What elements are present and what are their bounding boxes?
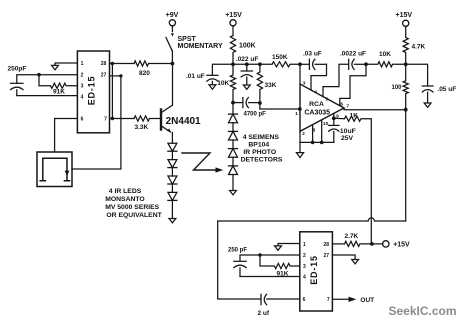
svg-text:1: 1 bbox=[303, 242, 306, 248]
resistor R12 91K bbox=[260, 255, 300, 269]
svg-text:BP104: BP104 bbox=[248, 141, 269, 148]
wire LED chain to terminal bbox=[171, 200, 173, 218]
photodiode PD4 bbox=[229, 166, 238, 175]
wire rail right bbox=[233, 63, 272, 65]
wire node to op-amp pin3 bbox=[299, 64, 301, 84]
wire bbox=[232, 157, 234, 166]
photodiode PD2 bbox=[229, 131, 238, 140]
ground terminal pin27 U3 bbox=[352, 260, 359, 264]
wire U1 pin1 to ground bbox=[55, 63, 77, 65]
svg-text:ED-15: ED-15 bbox=[87, 76, 97, 106]
svg-text:.01 uF: .01 uF bbox=[186, 73, 205, 80]
node .0022uF/10K/pin6 bbox=[364, 62, 368, 66]
resistor R8 10K bbox=[366, 62, 406, 67]
wire U1 pin27 bbox=[110, 75, 121, 77]
node 150K/.03uF/pin3 bbox=[298, 62, 302, 66]
svg-text:MOMENTARY: MOMENTARY bbox=[178, 43, 223, 50]
wire bbox=[171, 184, 173, 192]
wire U3 pin27 to ground bbox=[332, 255, 355, 259]
svg-text:150K: 150K bbox=[272, 54, 288, 61]
svg-text:27: 27 bbox=[324, 253, 330, 259]
svg-text:3.3K: 3.3K bbox=[135, 124, 149, 131]
svg-text:2: 2 bbox=[81, 73, 84, 79]
capacitor C10 250pF bbox=[234, 261, 246, 276]
photodiode PD3 bbox=[229, 149, 238, 158]
transistor Q1 2N4401 bbox=[161, 64, 173, 144]
capacitor C1 250pF bbox=[11, 83, 23, 95]
svg-text:2N4401: 2N4401 bbox=[166, 116, 201, 127]
op-amp U3 ED-15 body bbox=[300, 232, 333, 311]
wire bbox=[171, 151, 173, 159]
svg-text:33K: 33K bbox=[265, 82, 277, 89]
wire cap bottom to U3 pin4 bbox=[240, 276, 300, 278]
U2 pin10 drop bbox=[321, 120, 323, 142]
svg-text:OUT: OUT bbox=[360, 297, 374, 304]
node pin8 rail bbox=[311, 141, 315, 145]
svg-text:.022 uF: .022 uF bbox=[236, 56, 258, 63]
capacitor C4 4700pF bbox=[233, 98, 260, 108]
node .022uF tap bbox=[245, 62, 249, 66]
svg-text:ED-15: ED-15 bbox=[309, 255, 319, 285]
ground terminal .05uF bbox=[424, 103, 431, 107]
svg-text:MONSANTO: MONSANTO bbox=[105, 196, 145, 203]
resistor R4 100K bbox=[230, 36, 235, 65]
svg-text:10: 10 bbox=[323, 121, 329, 127]
svg-text:4: 4 bbox=[314, 90, 317, 96]
switch S1 SPST momentary bbox=[166, 26, 174, 64]
U2 pin2 drop bbox=[299, 131, 301, 142]
feedback wire down-left bbox=[218, 221, 261, 299]
wire node to .05uF bbox=[406, 64, 428, 86]
wire U1 pin7 bbox=[110, 118, 135, 120]
resistor R10 100 bbox=[403, 64, 408, 109]
feedback wire output down bbox=[405, 110, 407, 221]
U2 pin8 drop bbox=[312, 125, 314, 143]
wire U1 pin6 to sensor box bbox=[55, 119, 78, 153]
ground terminal LED chain bbox=[169, 219, 176, 223]
svg-text:1: 1 bbox=[81, 61, 84, 67]
node 33K tap bbox=[258, 62, 262, 66]
svg-text:.0022 uF: .0022 uF bbox=[340, 50, 366, 57]
LED D4 bbox=[168, 192, 177, 200]
U2 pin9 stub bbox=[333, 113, 335, 118]
node op-amp pin1 bbox=[298, 107, 302, 111]
svg-text:+15V: +15V bbox=[393, 242, 410, 249]
svg-text:100K: 100K bbox=[239, 43, 256, 50]
svg-text:2: 2 bbox=[302, 131, 305, 137]
capacitor C5 .03uF bbox=[300, 59, 327, 69]
svg-text:IR PHOTO: IR PHOTO bbox=[243, 149, 276, 156]
node vertical bottom on pin7 wire bbox=[111, 117, 114, 120]
svg-text:.03 uF: .03 uF bbox=[303, 50, 322, 57]
wire photodiode chain top bbox=[232, 103, 234, 115]
wire bbox=[232, 140, 234, 149]
svg-text:28: 28 bbox=[324, 242, 330, 248]
capacitor C3 .022uF bbox=[241, 64, 252, 85]
capacitor C9 2uF bbox=[261, 294, 300, 304]
resistor R6 33K bbox=[257, 64, 262, 103]
light emission arrow bbox=[182, 153, 223, 173]
node output/100 bbox=[404, 108, 408, 112]
svg-text:5: 5 bbox=[325, 96, 328, 102]
wire bbox=[171, 168, 173, 176]
svg-text:4 IR LEDS: 4 IR LEDS bbox=[109, 188, 142, 195]
ground terminal pin1 U3 bbox=[275, 246, 282, 250]
node 10K/4.7K/100 bbox=[404, 62, 408, 66]
feedback wire horizontal with hop bbox=[218, 218, 406, 221]
svg-text:SeekIC.com: SeekIC.com bbox=[389, 304, 457, 318]
svg-text:MV 5000 SERIES: MV 5000 SERIES bbox=[105, 204, 159, 211]
node 4700pF/33K bbox=[258, 101, 262, 105]
capacitor C7 .05uF bbox=[422, 86, 433, 103]
svg-text:2 uf: 2 uf bbox=[258, 310, 270, 317]
node 100K/10K/rail bbox=[231, 62, 235, 66]
svg-text:+15V: +15V bbox=[396, 12, 413, 19]
+15V terminal bottom bbox=[383, 241, 410, 249]
svg-text:CA3035: CA3035 bbox=[304, 109, 330, 116]
resistor R2 820 bbox=[134, 61, 172, 66]
node pin2/91K junction bbox=[37, 73, 41, 77]
resistor R5 10K (photodiode load) bbox=[230, 64, 235, 102]
svg-text:250pF: 250pF bbox=[8, 66, 27, 73]
svg-text:7: 7 bbox=[346, 104, 349, 110]
op-amp U2 RCA CA3035 bbox=[300, 84, 344, 131]
svg-text:1K: 1K bbox=[350, 112, 359, 119]
node 820/vertical top bbox=[111, 62, 114, 65]
svg-text:10uF: 10uF bbox=[340, 128, 356, 135]
wire rail to .01uF branch bbox=[212, 64, 233, 75]
svg-text:2: 2 bbox=[303, 253, 306, 259]
node 2.7K/1K/+15V bbox=[370, 242, 374, 246]
svg-text:SPST: SPST bbox=[178, 36, 197, 43]
svg-text:100: 100 bbox=[392, 85, 403, 91]
svg-text:3: 3 bbox=[81, 84, 84, 90]
svg-text:2.7K: 2.7K bbox=[345, 233, 359, 240]
wire U1 pin28 bbox=[110, 63, 135, 65]
U2 ground rail bbox=[300, 141, 334, 143]
svg-text:28: 28 bbox=[101, 61, 107, 67]
resistor R7 150K bbox=[272, 62, 300, 67]
svg-text:4700 pF: 4700 pF bbox=[244, 112, 267, 118]
+9V terminal bbox=[166, 12, 179, 26]
wire bbox=[232, 123, 234, 132]
wire node to op-amp pin6 bbox=[340, 64, 366, 105]
resistor R3 3.3K bbox=[134, 116, 161, 121]
wire U3 pin2 left bbox=[240, 255, 300, 261]
resistor R11 1K bbox=[334, 116, 372, 244]
svg-text:4: 4 bbox=[303, 275, 306, 281]
op-amp output wire pin7 bbox=[344, 108, 406, 110]
ground terminal .01uF bbox=[209, 85, 216, 89]
+15V terminal right bbox=[396, 12, 413, 27]
OUT arrowhead bbox=[349, 297, 357, 302]
svg-text:250 pF: 250 pF bbox=[228, 248, 247, 254]
svg-text:OR EQUIVALENT: OR EQUIVALENT bbox=[106, 212, 162, 219]
svg-text:820: 820 bbox=[139, 70, 150, 77]
wire .03uF to op-amp pin4 bbox=[311, 64, 327, 90]
resistor R1 91K bbox=[39, 75, 77, 89]
capacitor C2 .01uF bbox=[207, 75, 218, 84]
LED D1 bbox=[168, 143, 177, 151]
svg-text:6: 6 bbox=[81, 117, 84, 123]
svg-text:4.7K: 4.7K bbox=[412, 44, 426, 51]
wire pin28 net down to pin7 net bbox=[111, 64, 113, 119]
ground terminal photodiodes bbox=[230, 191, 237, 195]
wire U3 pin7 to OUT bbox=[332, 298, 349, 300]
op-amp U1 ED-15 body bbox=[77, 51, 109, 133]
wire 33K bottom / step to op-amp pin1 bbox=[260, 103, 300, 109]
node pin27 corner bbox=[119, 74, 122, 77]
wire rail to ground bbox=[299, 142, 301, 152]
ground terminal pin1 U1 bbox=[52, 65, 59, 69]
wire sensor box to U1 pin27 net bbox=[72, 76, 121, 169]
ground terminal .022uF bbox=[243, 85, 250, 89]
svg-text:91K: 91K bbox=[53, 89, 65, 96]
svg-text:RCA: RCA bbox=[309, 101, 324, 108]
svg-text:91K: 91K bbox=[277, 271, 289, 278]
LED D3 bbox=[168, 176, 177, 184]
capacitor C8 10uF 25V bbox=[329, 118, 339, 142]
resistor R9 4.7K bbox=[403, 26, 408, 64]
svg-text:3: 3 bbox=[303, 81, 306, 87]
svg-text:10K: 10K bbox=[379, 51, 391, 58]
svg-text:4: 4 bbox=[81, 94, 84, 100]
sensor box (acoustic pickup) bbox=[37, 152, 72, 187]
node pin10 rail bbox=[320, 141, 324, 145]
svg-text:DETECTORS: DETECTORS bbox=[241, 156, 283, 163]
wire U3 pin28 bbox=[332, 243, 344, 245]
svg-text:4 SEIMENS: 4 SEIMENS bbox=[243, 134, 280, 141]
svg-text:6: 6 bbox=[303, 297, 306, 303]
node pin2/91K junction U3 bbox=[258, 253, 262, 257]
ground terminal op-amp bbox=[296, 153, 303, 158]
svg-text:1: 1 bbox=[295, 111, 298, 117]
svg-text:7: 7 bbox=[104, 117, 107, 123]
wire U1 pin2 left bbox=[17, 75, 78, 84]
resistor R13 2.7K bbox=[345, 241, 372, 246]
svg-text:6: 6 bbox=[340, 101, 343, 107]
svg-text:.05 uF: .05 uF bbox=[437, 86, 456, 93]
svg-text:10K: 10K bbox=[217, 80, 229, 87]
capacitor C6 .0022uF bbox=[349, 59, 366, 69]
LED D2 bbox=[168, 160, 177, 168]
node switch/820/collector bbox=[171, 62, 175, 66]
wire photodiode chain to terminal bbox=[232, 175, 234, 191]
wire node to +15V terminal bbox=[372, 243, 383, 245]
svg-text:27: 27 bbox=[101, 73, 107, 79]
photodiode PD1 bbox=[229, 114, 238, 123]
svg-text:25V: 25V bbox=[341, 135, 354, 142]
node pin9/1K/10uF bbox=[332, 116, 336, 120]
svg-text:3: 3 bbox=[303, 264, 306, 270]
wire op-amp pin5 to .0022uF bbox=[323, 64, 348, 96]
node photodiode/4700pF bbox=[231, 101, 235, 105]
svg-text:7: 7 bbox=[327, 297, 330, 303]
wire cap bottom to U1 pin4 bbox=[17, 95, 78, 97]
wire U3 pin1 to ground bbox=[278, 244, 300, 246]
svg-text:+9V: +9V bbox=[166, 12, 179, 19]
svg-text:+15V: +15V bbox=[225, 12, 242, 19]
+15V terminal left bbox=[225, 12, 242, 36]
